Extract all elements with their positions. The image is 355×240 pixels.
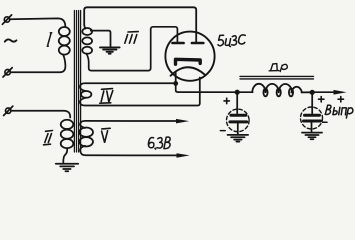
polarity - of C1 [220, 130, 225, 132]
ground (primary) [56, 164, 78, 172]
tap of winding III to ground [91, 31, 111, 47]
cathode bar [176, 59, 201, 64]
ground (HV center tap) [100, 47, 120, 53]
polarity - of C2 [323, 121, 327, 123]
label III [125, 32, 138, 44]
terminal X3 (winding II tap) [4, 106, 13, 115]
label I [47, 33, 52, 47]
output arrow (rectified + output) [312, 90, 346, 95]
ground below C1 [228, 135, 249, 142]
filament left lead [175, 72, 177, 84]
wire winding II to ground [63, 148, 67, 163]
label II [44, 131, 53, 145]
wire X3 to winding II top [11, 111, 70, 118]
winding IV bottom lead to filament right [80, 78, 200, 106]
top rail: winding III top to right anode [84, 7, 196, 41]
label 6.3V [148, 137, 170, 149]
AC symbol ~ [5, 39, 17, 41]
ground below C2 [302, 133, 322, 140]
wire C1 to ground [237, 123, 239, 134]
winding I [59, 27, 70, 55]
winding V bottom lead + heater line 2 [80, 146, 178, 156]
wire X1 to winding I top [10, 18, 66, 26]
choke Dr label [269, 64, 287, 72]
label Vypr [325, 105, 353, 118]
wire rail to capacitor C2 [311, 92, 313, 113]
terminal X2 (AC line b) [3, 68, 12, 77]
winding III [82, 28, 92, 54]
wire X2 to winding I bottom [10, 55, 65, 73]
choke coil [252, 84, 310, 96]
wire C2 to ground [311, 123, 313, 133]
filament arc [171, 67, 206, 76]
winding IV [81, 91, 91, 98]
label IV [100, 89, 113, 104]
winding IV top lead to junction [80, 83, 176, 91]
polarity + of output [338, 97, 343, 102]
winding II [61, 120, 74, 148]
choke core [240, 76, 314, 79]
node: cap1 junction [235, 90, 240, 95]
polarity + of C2 [319, 97, 324, 102]
wire rail to capacitor C1 [236, 92, 238, 113]
label V [102, 128, 111, 142]
node: cap2 junction [310, 90, 315, 95]
winding V top lead + heater line 1 [80, 121, 178, 128]
tube 5Ts3S envelope [165, 32, 214, 81]
capacitor C1 (electrolytic, dashed can with plates) [227, 109, 250, 132]
capacitor C2 (electrolytic, dashed can with plates) [301, 107, 323, 129]
polarity + of C1 [224, 98, 229, 103]
winding III bottom to left anode (staircase) [86, 27, 177, 71]
winding V [79, 128, 93, 147]
terminal X1 (AC line a) [2, 15, 11, 24]
node: filament junction [173, 81, 178, 86]
anode right [192, 42, 203, 45]
label 5ц3С [218, 35, 245, 47]
transformer core [74, 11, 80, 153]
plus rail from junction to output [176, 83, 253, 92]
winding III lead to top rail [84, 25, 85, 29]
anode left [173, 42, 184, 45]
